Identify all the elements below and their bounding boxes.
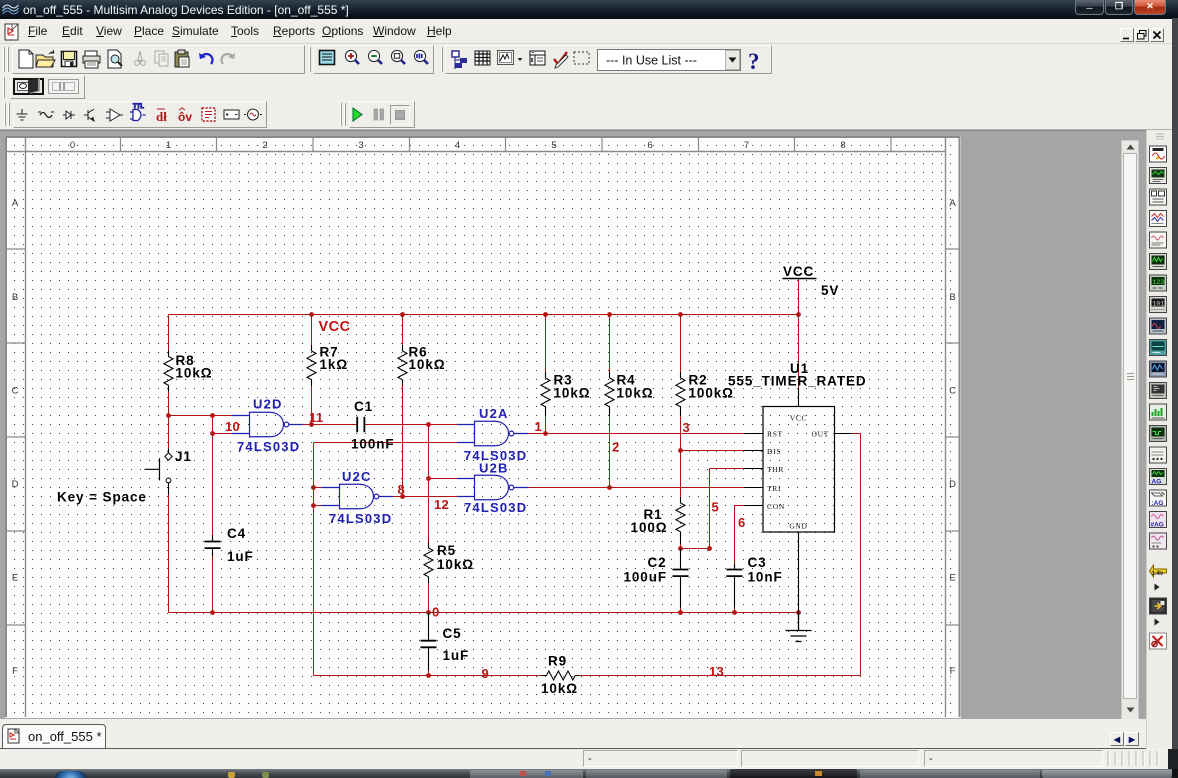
switch J1	[57, 449, 192, 505]
junction R7 net 11	[309, 422, 314, 427]
wire R2 / R1 branch net 3	[681, 315, 745, 549]
junction R1 C2 net 3	[678, 546, 683, 551]
open	[36, 50, 55, 67]
svg-text:123: 123	[1153, 279, 1165, 286]
wire net 9 bottom run to R9	[314, 675, 861, 677]
transistor icon	[84, 109, 94, 121]
CMOS icon	[156, 109, 167, 124]
junction net 10 upper	[210, 413, 215, 418]
resistor R8	[164, 351, 212, 392]
resistor R3	[541, 372, 590, 416]
wire C2 bottom	[680, 608, 682, 613]
junction C5 net 9	[426, 673, 431, 678]
resistor R7	[307, 345, 348, 387]
junction DIS net 3	[678, 448, 683, 453]
postprocessor	[530, 51, 545, 65]
vertical scrollbar	[1121, 140, 1139, 720]
pause button	[374, 109, 384, 120]
wire net 1 U2A out to RST	[529, 433, 745, 435]
play button	[353, 108, 362, 121]
svg-text:--- In Use List ---: --- In Use List ---	[606, 54, 697, 68]
wire net 10 U2D inputs	[169, 416, 233, 434]
taskbar	[0, 769, 1178, 778]
TTL gate icon	[130, 104, 146, 121]
capacitor C5	[421, 613, 470, 671]
capture area	[574, 52, 589, 64]
wire net 2 U2B out to TRI	[529, 487, 745, 489]
menu bar	[0, 19, 1178, 44]
misc comp icon	[244, 109, 262, 120]
capacitor C4	[205, 526, 254, 564]
junction GND pin ground rail	[796, 610, 801, 615]
junction net 10 lower	[210, 431, 215, 436]
preview	[108, 50, 122, 68]
junction C1 net 12	[426, 422, 431, 427]
power comp icon	[224, 110, 239, 119]
ground symbol	[786, 613, 812, 642]
IC U1 555_TIMER_RATED	[728, 361, 867, 532]
net labels red	[225, 319, 746, 681]
wire C4 branch	[212, 434, 214, 613]
capacitor C2	[623, 549, 688, 608]
wire R7 branch	[311, 315, 313, 425]
junction R3 top rail	[543, 312, 548, 317]
capacitor C3	[727, 555, 783, 608]
stop button	[391, 106, 410, 125]
junction R4 top rail	[607, 312, 612, 317]
wire VCC symbol to rail	[798, 279, 800, 389]
grapher	[498, 51, 514, 65]
redo (disabled)	[221, 53, 235, 64]
ground icon	[17, 109, 28, 120]
VCC power symbol	[783, 264, 840, 298]
svg-text:AG: AG	[1152, 479, 1162, 486]
wire R6 branch	[402, 315, 404, 497]
zoom group	[320, 51, 335, 65]
resistor R5	[424, 542, 474, 583]
wire R8 / J1 left branch	[168, 315, 170, 613]
wire CON to C3 net 6	[735, 506, 745, 613]
wire net 9 U2A lower input / U2C inputs	[314, 443, 458, 676]
source icon	[38, 112, 54, 118]
in use list combo	[598, 50, 741, 71]
junction R7 top rail	[309, 312, 314, 317]
nand gate U2C	[322, 469, 394, 526]
junction R4 net 2	[607, 485, 612, 490]
svg-text:?: ?	[748, 49, 760, 74]
new	[19, 50, 33, 68]
junction U2C input lower net 9	[311, 503, 316, 508]
junction R6 top rail	[400, 312, 405, 317]
resistor R9	[541, 654, 579, 697]
svg-text::AG: :AG	[1152, 500, 1164, 507]
wire C5 to net 9	[428, 671, 430, 676]
junction R2 top rail	[678, 312, 683, 317]
wire R4 branch	[609, 315, 611, 488]
wire net 12 vertical R5 column	[429, 425, 458, 613]
resistor R4	[605, 372, 653, 416]
print	[83, 51, 100, 68]
tab bar	[0, 719, 1146, 749]
resistor R1	[631, 497, 685, 544]
resistor R2	[676, 372, 734, 416]
toolbar row 3	[0, 100, 1178, 130]
instrument bar	[1146, 130, 1172, 748]
svg-text:dł: dł	[156, 109, 167, 124]
wire VCC top rail	[169, 314, 799, 316]
hierarchy	[452, 51, 467, 69]
title bar	[0, 0, 1178, 19]
capacitor C1	[351, 399, 395, 452]
nand gate U2B	[457, 461, 529, 516]
misc digital icon	[178, 108, 192, 124]
junction THR column net 5	[707, 546, 712, 551]
resistor R6	[398, 345, 445, 387]
wire net 13 OUT column	[852, 434, 861, 676]
junction C4 ground rail	[210, 610, 215, 615]
wire net 11 U2D out to C1	[303, 424, 357, 426]
nand gate U2D	[232, 397, 303, 455]
main schematic view	[0, 130, 1146, 719]
svg-text:1.4v: 1.4v	[1152, 571, 1164, 577]
diode icon	[63, 111, 75, 119]
save	[62, 52, 77, 67]
junction C2 ground rail	[678, 610, 683, 615]
nand gate U2A	[457, 406, 529, 463]
junction R6 net 8	[400, 494, 405, 499]
junction U2B input net 12	[426, 476, 431, 481]
svg-text:ôv: ôv	[178, 110, 192, 124]
junction R8 J1 net 10	[166, 413, 171, 418]
svg-text:1010: 1010	[1153, 301, 1169, 308]
junction U2C input upper net 9	[311, 485, 316, 490]
analog icon	[106, 109, 123, 121]
ERC	[554, 52, 568, 68]
status bar	[0, 749, 1178, 769]
wire net 8 U2C out to U2B	[393, 496, 457, 498]
svg-text:TTL: TTL	[133, 104, 144, 110]
wire R1 to THR column net 5	[681, 469, 745, 549]
toolbar row 2	[0, 75, 1178, 100]
paste	[175, 50, 189, 67]
undo	[199, 53, 213, 64]
junction VCC top rail	[796, 312, 801, 317]
indicator icon	[202, 108, 215, 121]
wire net 12 C1 to U2A	[364, 424, 457, 426]
spreadsheet	[475, 51, 490, 65]
junction C3 ground rail	[732, 610, 737, 615]
svg-text:#AG: #AG	[1151, 522, 1164, 529]
wire ground rail net 0	[169, 612, 799, 614]
junction R5 C5 ground rail	[426, 610, 431, 615]
cut (disabled)	[135, 51, 146, 65]
wire R3 branch	[545, 315, 547, 434]
toolbar row 1	[0, 44, 1178, 75]
555 GND pin lead	[798, 532, 800, 613]
copy (disabled)	[155, 51, 168, 66]
junction R3 net 1	[543, 431, 548, 436]
